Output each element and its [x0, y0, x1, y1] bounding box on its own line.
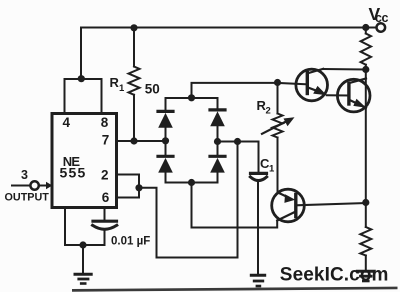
- diode D1: [158, 110, 173, 113]
- svg-text:8: 8: [101, 115, 109, 130]
- svg-text:R: R: [110, 75, 120, 90]
- node pins 4-8 tie: [78, 75, 85, 82]
- terminal Vcc: [377, 23, 386, 32]
- wire 555 ground stub: [64, 208, 66, 246]
- wire pin 7: [116, 140, 166, 142]
- wire bridge right to C1: [218, 142, 259, 173]
- bottom border line: [72, 287, 398, 292]
- diode D3: [210, 108, 225, 111]
- svg-text:6: 6: [102, 190, 110, 205]
- svg-text:cc: cc: [375, 11, 388, 25]
- svg-text:555: 555: [60, 165, 87, 181]
- svg-text:2: 2: [266, 106, 271, 117]
- node ground tie: [79, 241, 86, 248]
- wire Q3 base to right rail: [296, 203, 366, 205]
- node right rail upper: [362, 66, 369, 73]
- svg-text:4: 4: [63, 115, 71, 130]
- transistor Q2: [337, 79, 370, 112]
- svg-text:3: 3: [21, 168, 28, 182]
- node bridge bottom: [188, 179, 195, 186]
- node timing tie: [234, 138, 241, 145]
- wire pins 2-6 to timing node: [139, 142, 238, 258]
- node bridge right: [214, 138, 221, 145]
- svg-text:1: 1: [269, 164, 275, 175]
- node right rail lower: [362, 199, 369, 206]
- node pin7 / R1: [130, 137, 137, 144]
- svg-text:2: 2: [101, 168, 109, 183]
- transistor Q1: [296, 69, 328, 101]
- wire bridge bottom to Q3 collector: [192, 183, 278, 228]
- resistor right rail bottom: [365, 203, 367, 228]
- wire pin 6: [116, 188, 139, 198]
- terminal pin 3 OUTPUT: [12, 185, 31, 187]
- wire top rail: [81, 28, 366, 80]
- node bridge top: [188, 94, 195, 101]
- IC U1 NE555: [52, 114, 117, 208]
- variable resistor R2: [277, 83, 279, 114]
- wire pin 2: [116, 175, 139, 188]
- node top rail / R1: [130, 24, 137, 31]
- ground right rail: [357, 270, 374, 273]
- wire bridge top to Q1 base: [192, 83, 278, 98]
- svg-text:50: 50: [145, 82, 160, 97]
- svg-text:OUTPUT: OUTPUT: [5, 192, 50, 204]
- bridge frame wires: [166, 98, 218, 111]
- wire right rail through Q2: [365, 70, 367, 203]
- transistor Q3: [272, 189, 305, 222]
- ground C1: [251, 274, 264, 277]
- capacitor C1: [251, 172, 267, 175]
- wire Q1 emitter to Q2 base: [327, 94, 349, 96]
- wire to ground: [82, 245, 84, 273]
- svg-text:0.01 µF: 0.01 µF: [111, 236, 150, 248]
- svg-text:SeekIC.com: SeekIC.com: [280, 264, 389, 285]
- node pins 2-6 tie: [135, 184, 142, 191]
- wire Vcc stub: [366, 27, 376, 29]
- ground 555: [75, 273, 91, 276]
- wire pins 4-8 header: [65, 79, 102, 114]
- resistor Vcc rail: [365, 28, 367, 34]
- diode D2: [158, 155, 173, 158]
- svg-text:1: 1: [119, 83, 125, 94]
- wire Q1 collector to node: [323, 68, 366, 71]
- node bridge left: [162, 137, 169, 144]
- capacitor 0.01uF: [104, 208, 106, 221]
- diode D4: [210, 155, 225, 158]
- node R2 top: [274, 79, 281, 86]
- wire cap bottom tie: [65, 244, 105, 246]
- node top rail / right rail: [362, 24, 369, 31]
- resistor R1: [133, 28, 135, 67]
- svg-text:7: 7: [102, 133, 110, 148]
